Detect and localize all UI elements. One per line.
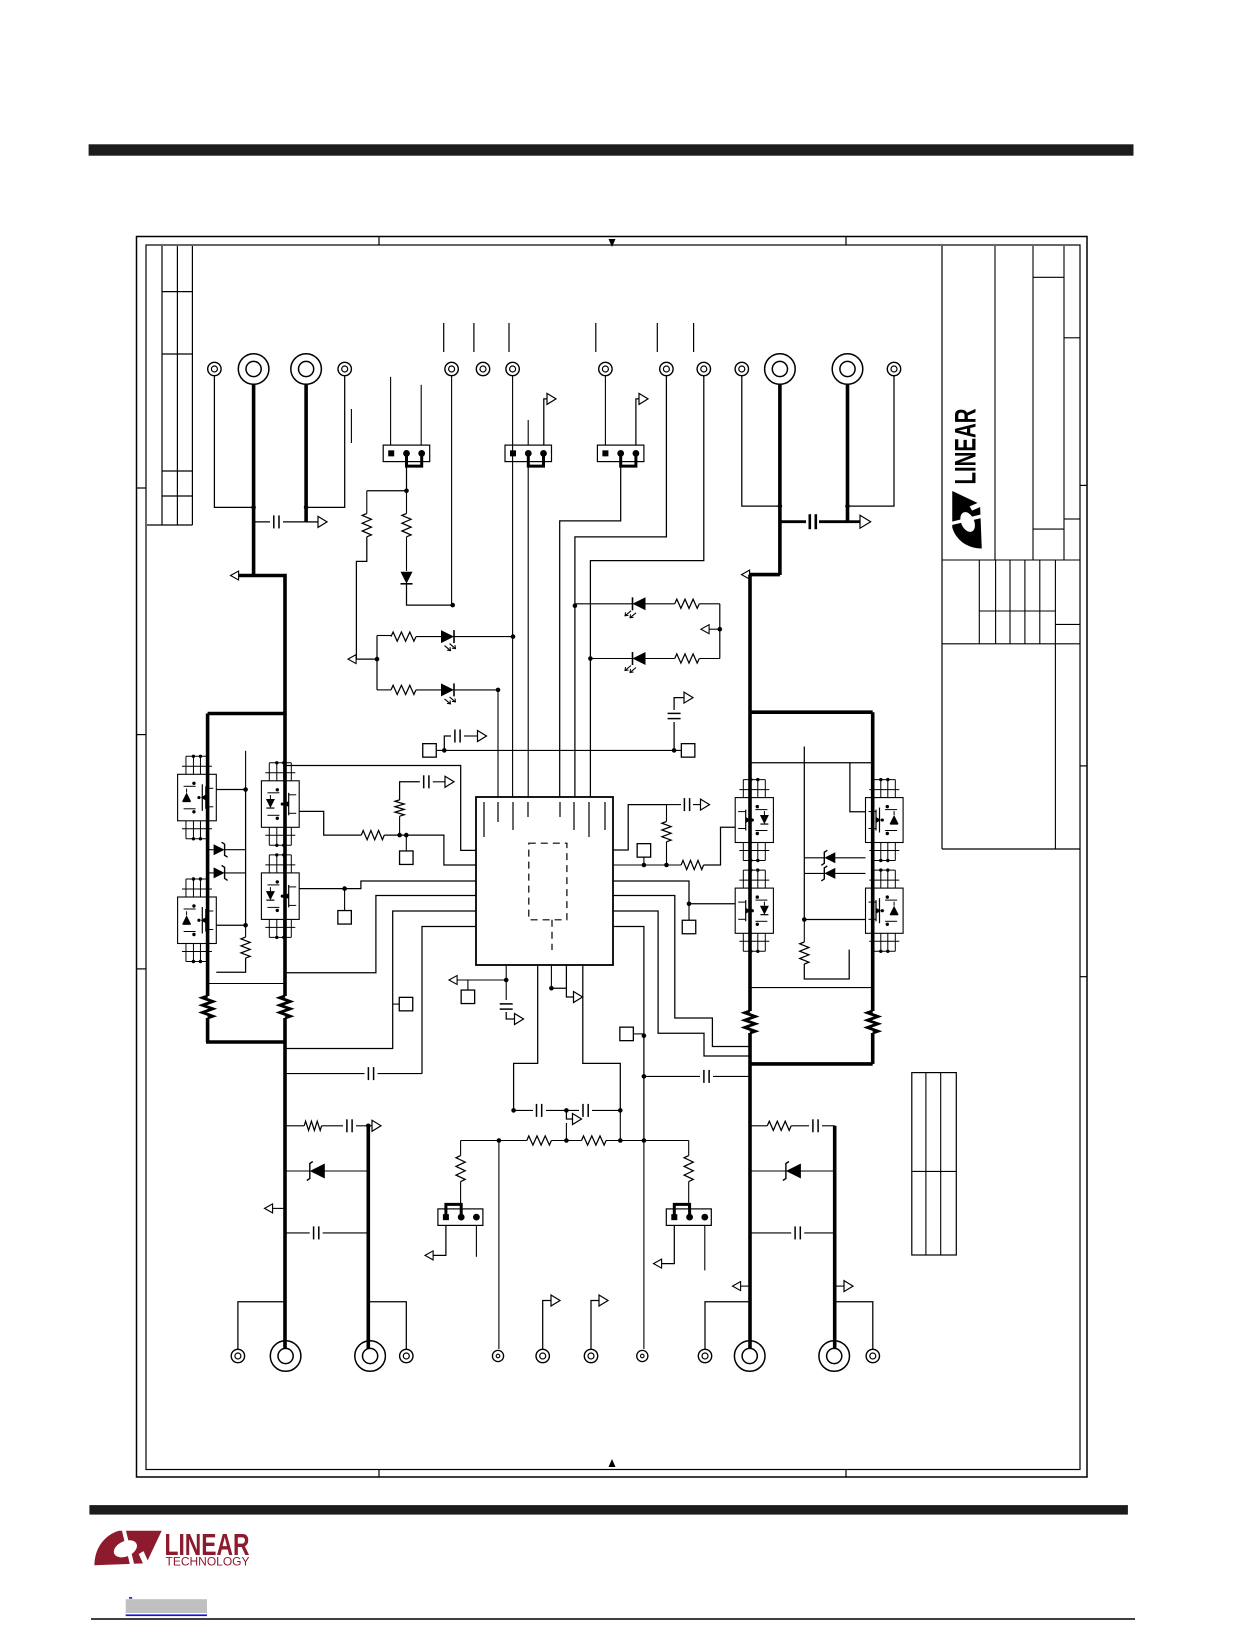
- wire: [460, 1141, 462, 1156]
- net flag: [684, 692, 693, 703]
- drawing frame: [137, 237, 1088, 1478]
- wire: [704, 1225, 706, 1270]
- VIN+ bus wire: [252, 384, 256, 577]
- resistor R11: [391, 632, 416, 641]
- wire: [791, 1125, 835, 1127]
- mosfet Q8: [866, 868, 904, 953]
- capacitor C9: [583, 1104, 588, 1117]
- VIN2 return bus wire: [846, 384, 850, 523]
- wire: [835, 1285, 844, 1287]
- left out bus wire: [366, 1126, 370, 1349]
- net arrow: [654, 1259, 662, 1268]
- wire: [667, 804, 701, 806]
- junction: [802, 917, 807, 922]
- wire: [662, 1225, 675, 1263]
- right out bus wire: [833, 1126, 837, 1349]
- wire: [804, 920, 849, 980]
- wire: [643, 1141, 645, 1350]
- wire: [451, 376, 453, 605]
- wire: [208, 983, 285, 985]
- capacitor C14: [795, 1226, 800, 1239]
- turret terminal E9: [660, 362, 673, 375]
- turret terminal E26: [536, 1349, 549, 1362]
- turret terminal E3: [291, 354, 322, 385]
- junction: [497, 1138, 647, 1143]
- LINEAR logo (title block): [950, 408, 983, 548]
- title block: [942, 246, 1080, 849]
- wire: [216, 925, 245, 972]
- wire: [273, 1207, 286, 1209]
- junction: [642, 1034, 647, 1039]
- junction: [450, 603, 455, 608]
- net arrow: [265, 1204, 273, 1213]
- net stub: [508, 323, 510, 352]
- turret terminal E10: [697, 362, 710, 375]
- wire: [377, 689, 441, 691]
- turret terminal E14: [887, 362, 900, 375]
- wire: [750, 762, 873, 764]
- wire: [512, 376, 514, 797]
- net flag: [372, 1120, 381, 1131]
- LED D6: [441, 630, 456, 651]
- net flag: [547, 393, 556, 404]
- wire: [436, 749, 681, 751]
- wire U1 pin: [613, 927, 644, 1141]
- junction: [404, 489, 409, 494]
- wire U1 pin: [550, 965, 552, 988]
- turret terminal E23: [355, 1341, 386, 1372]
- net stub: [443, 323, 445, 352]
- wire: [565, 1123, 567, 1141]
- wire U1 pin: [505, 965, 507, 1000]
- testpoint TP9: [461, 990, 475, 1004]
- wire: [780, 520, 848, 523]
- net stub: [693, 323, 695, 352]
- junction: [504, 978, 509, 983]
- capacitor C6: [424, 775, 429, 788]
- net flag: [639, 393, 648, 404]
- wire: [498, 1141, 500, 1350]
- jumper JP2: [505, 445, 552, 466]
- wire: [848, 376, 895, 506]
- wire U1 pin: [285, 896, 476, 973]
- wire: [306, 376, 345, 508]
- net arrow: [733, 1282, 741, 1291]
- wire: [475, 1225, 477, 1256]
- capacitor C12: [368, 1067, 373, 1080]
- testpoint TP3: [399, 997, 413, 1011]
- mosfet Q3: [261, 761, 299, 847]
- capacitor C11: [314, 1226, 319, 1239]
- wire: [606, 1140, 689, 1142]
- wire: [551, 1140, 581, 1142]
- wire: [848, 520, 860, 523]
- bus wire: [283, 1018, 287, 1349]
- wire: [591, 1301, 599, 1350]
- resistor R8: [681, 860, 704, 869]
- diode D11: [783, 1162, 801, 1181]
- bus jog wire: [237, 576, 285, 997]
- bus wire: [748, 575, 752, 1011]
- wire: [457, 979, 506, 981]
- junction: [375, 657, 380, 662]
- capacitor C8: [537, 1104, 542, 1117]
- wire: [750, 987, 873, 989]
- jumper JP1: [383, 445, 430, 466]
- wire U1 pin: [551, 965, 566, 988]
- resistor R21: [395, 800, 404, 816]
- wire U1 pin: [514, 965, 538, 1110]
- sense resistor R22 (bold): [868, 1011, 878, 1033]
- LED D7: [441, 683, 456, 704]
- wire: [719, 604, 721, 659]
- junction: [366, 1124, 371, 1129]
- testpoint TP6: [620, 1027, 634, 1041]
- wire: [390, 377, 392, 445]
- wire: [688, 1141, 690, 1156]
- capacitor C7: [500, 1004, 513, 1009]
- gate wire: [216, 751, 248, 926]
- right col bus wire: [871, 1033, 875, 1064]
- net flag: [318, 516, 327, 527]
- turret terminal E32: [866, 1349, 879, 1362]
- wire: [405, 835, 407, 851]
- wire: [285, 1073, 422, 1075]
- resistor R12: [391, 685, 416, 694]
- LED D8: [625, 597, 646, 618]
- wire U1 pin: [285, 766, 476, 851]
- net flag: [574, 992, 583, 1003]
- mosfet Q5: [735, 778, 773, 862]
- wire: [619, 1110, 621, 1140]
- capacitor C3: [684, 798, 689, 811]
- wire: [750, 1125, 767, 1127]
- wire: [400, 782, 420, 800]
- resistor R19: [304, 1121, 321, 1130]
- wire: [406, 537, 408, 571]
- turret terminal E12: [765, 354, 796, 385]
- testpoint TP5: [682, 920, 696, 934]
- net arrow: [449, 976, 457, 985]
- wire: [750, 1170, 835, 1172]
- wire: [633, 1033, 644, 1035]
- capacitor C10: [347, 1119, 352, 1132]
- wire: [673, 722, 675, 750]
- wire: [285, 1125, 304, 1127]
- wire: [709, 628, 720, 630]
- wire: [454, 689, 498, 691]
- wire: [433, 1225, 446, 1255]
- jumper JP3: [597, 445, 644, 466]
- net stub: [350, 409, 352, 443]
- junction: [778, 504, 783, 509]
- junction: [496, 688, 501, 693]
- wire: [285, 1170, 368, 1172]
- resistor R7: [662, 822, 671, 842]
- page top rule bar: [89, 144, 1134, 155]
- net flag: [478, 731, 487, 742]
- wire: [699, 603, 720, 605]
- wire: [804, 872, 865, 874]
- resistor R14: [675, 654, 700, 663]
- junction: [642, 863, 669, 868]
- turret terminal E21: [231, 1349, 244, 1362]
- diode D10: [307, 1162, 325, 1181]
- mosfet Q4: [261, 853, 299, 939]
- turret terminal E27: [584, 1349, 597, 1362]
- wire: [497, 690, 499, 797]
- junction: [687, 902, 692, 907]
- junction: [442, 748, 447, 753]
- wire: [704, 827, 736, 865]
- zener D2: [214, 842, 228, 857]
- turret terminal E30: [734, 1341, 765, 1372]
- wire: [575, 603, 675, 605]
- jumper JP5: [666, 1204, 711, 1225]
- resistor R13: [675, 599, 700, 608]
- capacitor C5: [668, 713, 681, 718]
- wire: [214, 376, 253, 508]
- net stub: [473, 323, 475, 352]
- net flag: [860, 515, 871, 528]
- bus arrow: [231, 571, 239, 580]
- resistor R4: [362, 514, 371, 537]
- wire: [406, 491, 408, 514]
- svg-text:LINEAR: LINEAR: [950, 408, 983, 484]
- wire: [688, 904, 690, 921]
- testpoint TP2: [338, 911, 352, 925]
- junction: [588, 656, 593, 661]
- wire: [467, 980, 469, 990]
- VIN2+ bus wire: [778, 384, 782, 576]
- wire: [699, 658, 720, 660]
- mosfet Q1: [178, 755, 217, 841]
- junction: [845, 504, 850, 509]
- wire: [444, 736, 451, 750]
- branch bus wire: [208, 712, 285, 716]
- testpoint TP1: [400, 851, 414, 865]
- mosfet Q6: [735, 868, 773, 953]
- resistor R16: [582, 1136, 607, 1145]
- wire U1 pin: [422, 927, 476, 1074]
- diode D1: [401, 572, 413, 584]
- wire: [377, 636, 441, 637]
- wire: [566, 1110, 572, 1119]
- junction: [397, 833, 408, 838]
- capacitor C15: [704, 1070, 709, 1083]
- net stub: [656, 323, 658, 352]
- turret terminal E11: [735, 362, 748, 375]
- junction: [304, 505, 309, 510]
- footer badge: [126, 1597, 207, 1616]
- wire U1 pin: [384, 835, 476, 865]
- turret terminal E1: [208, 362, 221, 375]
- VIN return bus wire: [304, 384, 308, 523]
- wire: [560, 467, 621, 797]
- testpoint TP7: [423, 744, 437, 758]
- testpoint TP8: [681, 744, 695, 758]
- wire: [804, 857, 865, 859]
- wire: [393, 1003, 400, 1005]
- revision table: [147, 246, 192, 525]
- wire: [356, 537, 376, 659]
- turret terminal E5: [445, 362, 458, 375]
- wire: [666, 842, 668, 865]
- sense resistor R1 (bold): [280, 996, 290, 1018]
- wire: [238, 1302, 285, 1349]
- bus branch wire: [749, 710, 873, 714]
- Linear Technology logo: [94, 1527, 249, 1569]
- junction: [251, 505, 256, 510]
- wire: [368, 1302, 406, 1349]
- wire: [208, 849, 246, 851]
- turret terminal E2: [238, 354, 269, 385]
- resistor R5: [402, 514, 411, 537]
- wire: [590, 376, 703, 797]
- turret terminal E13: [832, 354, 863, 385]
- turret terminal E8: [599, 362, 612, 375]
- net flag: [599, 1295, 608, 1306]
- wire U1 pin: [285, 911, 476, 1049]
- wire: [527, 462, 529, 797]
- net arrow: [425, 1251, 433, 1260]
- turret terminal E28: [637, 1350, 648, 1361]
- wire: [366, 491, 368, 514]
- wire: [688, 1182, 690, 1209]
- zener D3: [214, 865, 228, 880]
- branch bus wire: [206, 714, 210, 997]
- junction: [342, 886, 347, 891]
- wire: [461, 1140, 527, 1142]
- turret terminal E31: [819, 1341, 850, 1372]
- gate wire: [850, 763, 866, 812]
- turret terminal E7: [506, 362, 519, 375]
- wire: [322, 1125, 369, 1127]
- net flag: [573, 1114, 582, 1125]
- mosfet Q2: [178, 877, 217, 963]
- wire: [399, 816, 401, 835]
- wire U1 pin: [613, 896, 750, 1047]
- wire: [636, 399, 639, 445]
- wire: [644, 1075, 750, 1077]
- wire: [406, 467, 408, 491]
- junction: [672, 748, 677, 753]
- resistor R10: [800, 942, 809, 964]
- resistor R15: [527, 1136, 552, 1145]
- turret terminal E24: [400, 1349, 413, 1362]
- right col bus wire: [871, 712, 875, 1011]
- wire: [835, 1302, 873, 1349]
- wire: [666, 805, 668, 822]
- resistor R17: [456, 1156, 465, 1182]
- junction: [573, 603, 578, 608]
- wire: [306, 521, 317, 523]
- wire: [506, 1012, 514, 1019]
- resistor R20: [767, 1121, 791, 1130]
- bus tie wire: [749, 1062, 873, 1066]
- wire: [674, 698, 683, 710]
- junction: [718, 627, 723, 632]
- bus jog wire: [748, 573, 780, 577]
- turret terminal E29: [698, 1349, 711, 1362]
- wire: [367, 490, 407, 492]
- wire: [285, 1232, 368, 1234]
- resistor R18: [684, 1156, 693, 1182]
- wire: [407, 584, 453, 605]
- wire: [454, 636, 513, 638]
- junction: [642, 1074, 647, 1079]
- wire: [527, 420, 529, 445]
- resistor R6: [361, 831, 384, 840]
- wire: [420, 385, 422, 445]
- wire: [750, 1232, 835, 1234]
- wire U1 pin: [613, 911, 750, 1056]
- capacitor C4: [455, 730, 460, 743]
- wire: [254, 521, 307, 523]
- junction: [511, 1108, 622, 1113]
- bus arrow: [742, 570, 750, 579]
- capacitor C13: [813, 1119, 818, 1132]
- wire: [299, 811, 361, 835]
- junction: [243, 923, 248, 928]
- wire: [464, 735, 477, 737]
- wire U1 pin: [299, 881, 476, 889]
- net flag: [515, 1014, 524, 1025]
- op-controller U1 LTC3731: [476, 797, 613, 965]
- bus tie wire: [206, 1040, 287, 1044]
- wire: [705, 1302, 750, 1349]
- wire U1 pin: [613, 805, 667, 850]
- resistor R9: [241, 937, 250, 958]
- wire: [741, 1285, 751, 1287]
- net stub: [595, 323, 597, 352]
- turret terminal E6: [476, 362, 489, 375]
- net flag: [701, 799, 710, 810]
- sense resistor R3 (bold): [745, 1011, 755, 1033]
- wire: [433, 781, 445, 783]
- net flag: [844, 1281, 853, 1292]
- turret terminal E4: [338, 362, 351, 375]
- testpoint TP4: [637, 844, 651, 858]
- mosfet Q7: [866, 778, 904, 862]
- capacitor C1: [274, 515, 279, 528]
- net arrow: [701, 625, 709, 634]
- turret terminal E22: [270, 1341, 301, 1372]
- wire U1 pin: [613, 864, 681, 866]
- wire: [590, 658, 674, 660]
- wire: [566, 988, 573, 997]
- wire: [208, 872, 246, 874]
- wire: [604, 376, 606, 445]
- wire U1 pin: [613, 881, 735, 904]
- LED D9: [625, 652, 646, 673]
- capacitor C2: [810, 514, 816, 529]
- sense resistor R2 (bold): [202, 996, 212, 1018]
- notes table: [912, 1073, 957, 1255]
- turret terminal E25: [492, 1350, 503, 1361]
- jumper JP4: [438, 1204, 483, 1225]
- bus wire: [206, 1018, 210, 1042]
- wire: [376, 636, 378, 690]
- bus wire: [748, 1033, 752, 1349]
- wire: [544, 399, 547, 445]
- wire: [742, 376, 780, 506]
- zener D5: [821, 866, 835, 881]
- net flag: [551, 1295, 560, 1306]
- junction: [549, 986, 554, 991]
- wire: [543, 1301, 551, 1350]
- junction: [511, 634, 516, 639]
